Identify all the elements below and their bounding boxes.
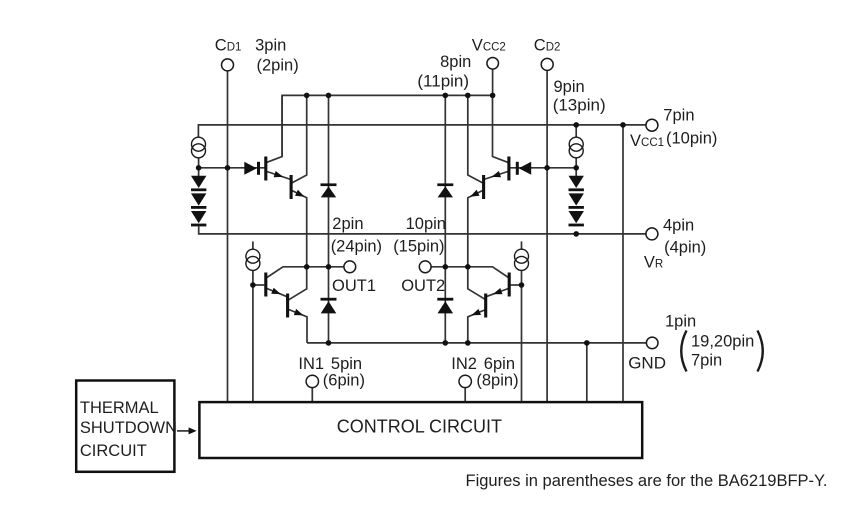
- svg-text:10pin: 10pin: [406, 215, 446, 233]
- svg-text:(10pin): (10pin): [666, 130, 717, 148]
- svg-text:9pin: 9pin: [554, 78, 585, 96]
- svg-text:2pin: 2pin: [332, 215, 363, 233]
- svg-text:(24pin): (24pin): [331, 238, 382, 256]
- svg-text:(8pin): (8pin): [476, 371, 518, 389]
- svg-text:4pin: 4pin: [663, 216, 694, 234]
- svg-text:IN15pin: IN15pin: [298, 355, 362, 373]
- svg-text:Figures in parentheses are for: Figures in parentheses are for the BA621…: [466, 472, 828, 490]
- svg-text:GND: GND: [628, 353, 666, 372]
- svg-text:(15pin): (15pin): [393, 238, 444, 256]
- svg-text:SHUTDOWN: SHUTDOWN: [80, 419, 177, 437]
- svg-text:CIRCUIT: CIRCUIT: [80, 442, 147, 460]
- svg-text:OUT2: OUT2: [401, 277, 445, 295]
- svg-text:OUT1: OUT1: [332, 277, 376, 295]
- svg-text:7pin: 7pin: [691, 352, 722, 370]
- svg-text:IN26pin: IN26pin: [451, 355, 515, 373]
- svg-text:(11pin): (11pin): [417, 71, 469, 90]
- svg-text:3pin: 3pin: [255, 37, 286, 55]
- svg-text:CD2: CD2: [534, 36, 561, 54]
- svg-text:VCC1: VCC1: [630, 132, 664, 150]
- svg-text:(4pin): (4pin): [664, 239, 706, 257]
- svg-text:(13pin): (13pin): [553, 96, 606, 115]
- svg-text:VR: VR: [644, 254, 663, 272]
- svg-text:19,20pin: 19,20pin: [691, 332, 754, 350]
- svg-text:CONTROL CIRCUIT: CONTROL CIRCUIT: [337, 417, 502, 437]
- svg-text:(2pin): (2pin): [257, 57, 299, 75]
- svg-text:CD1: CD1: [215, 37, 242, 55]
- svg-text:1pin: 1pin: [665, 312, 696, 330]
- svg-text:8pin: 8pin: [440, 53, 471, 71]
- svg-text:VCC2: VCC2: [472, 36, 506, 54]
- svg-text:7pin: 7pin: [663, 107, 694, 125]
- svg-text:THERMAL: THERMAL: [80, 399, 159, 417]
- svg-text:(6pin): (6pin): [323, 371, 365, 389]
